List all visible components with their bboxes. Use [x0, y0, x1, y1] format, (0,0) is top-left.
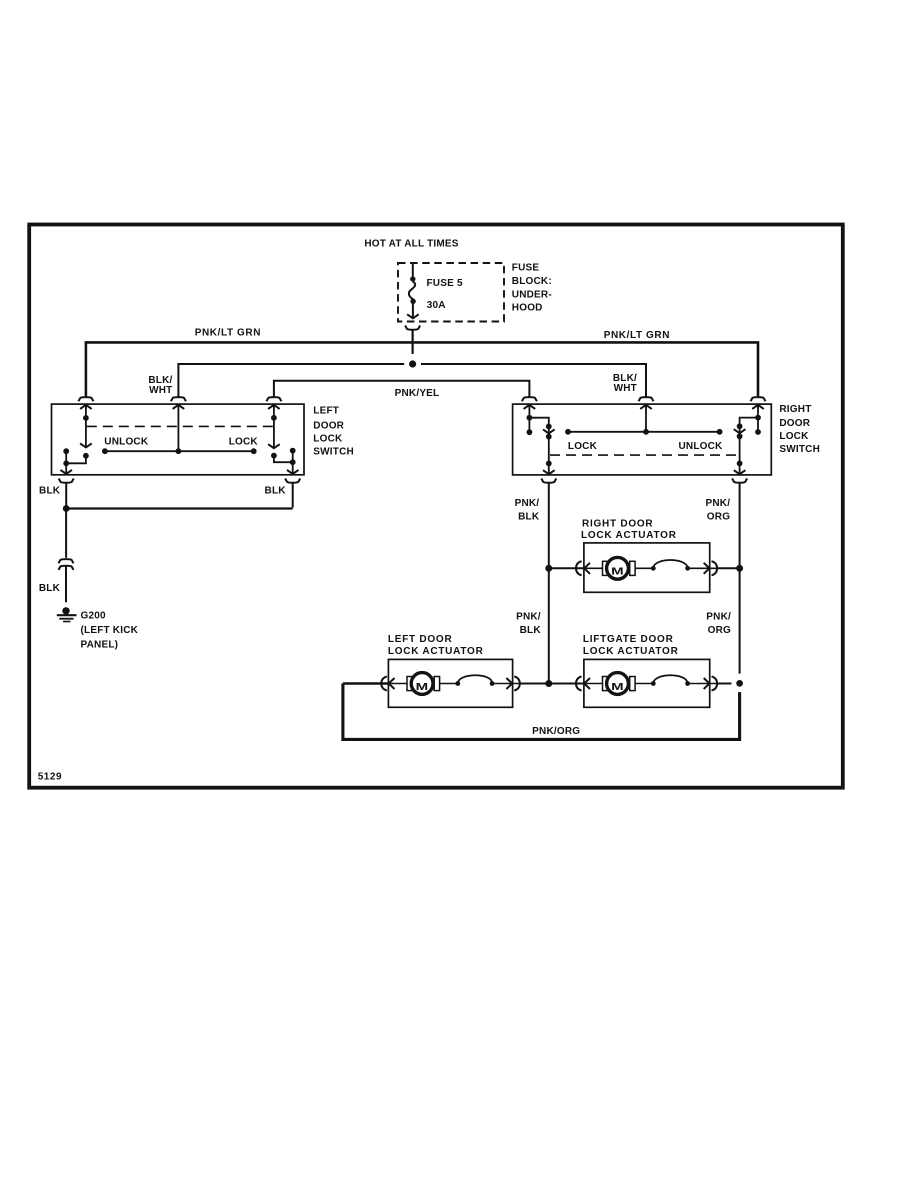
svg-text:DOOR: DOOR: [779, 418, 810, 429]
liftgate actuator motor and linkage: [552, 673, 732, 695]
svg-text:LOCK: LOCK: [229, 437, 259, 448]
wire PNK/BLK vertical: [545, 483, 552, 687]
wire PNK/YEL: [274, 381, 530, 397]
svg-text:SWITCH: SWITCH: [779, 444, 820, 455]
left actuator motor and linkage: [343, 673, 546, 695]
label RIGHT DOOR LOCK SWITCH: [779, 404, 820, 455]
svg-text:PANEL): PANEL): [81, 640, 119, 651]
label BLK/WHT left: [148, 375, 172, 396]
left switch internal dashed link: [87, 425, 273, 427]
label LEFT DOOR LOCK ACTUATOR: [388, 634, 484, 657]
label PNK/ORG upper: [705, 498, 730, 523]
svg-text:PNK/: PNK/: [515, 498, 540, 509]
connector pins on left switch: [78, 397, 281, 409]
svg-text:LOCK ACTUATOR: LOCK ACTUATOR: [583, 646, 679, 657]
label BLK/WHT right: [613, 373, 637, 394]
right switch pin B wire: [643, 405, 649, 435]
connector below left switch (right BLK): [285, 479, 300, 508]
svg-text:PNK/: PNK/: [516, 611, 541, 622]
left switch pin C wiper: [268, 405, 293, 462]
svg-text:LOCK: LOCK: [568, 441, 598, 452]
svg-text:RIGHT: RIGHT: [779, 404, 811, 415]
svg-text:UNDER-: UNDER-: [512, 290, 552, 301]
outer page frame (not a component): [29, 225, 843, 788]
svg-text:PNK/LT GRN: PNK/LT GRN: [195, 327, 261, 338]
label LIFTGATE DOOR LOCK ACTUATOR: [583, 634, 679, 657]
inline connector C on ground wire: [59, 559, 74, 602]
connector below left switch (left BLK): [59, 479, 74, 507]
wire BLK to ground: [65, 509, 67, 558]
svg-text:M: M: [611, 682, 624, 693]
label LEFT DOOR LOCK SWITCH: [313, 405, 354, 457]
svg-text:30A: 30A: [427, 300, 446, 311]
wire BLK/WHT bus with splice: [178, 364, 646, 397]
svg-text:PNK/: PNK/: [705, 498, 730, 509]
connector pins on right switch: [522, 397, 766, 409]
svg-text:M: M: [611, 567, 624, 578]
label PNK/BLK lower: [516, 611, 541, 636]
wire joining BLK exits: [63, 505, 293, 512]
svg-text:BLK: BLK: [39, 583, 61, 594]
svg-text:HOOD: HOOD: [512, 303, 543, 314]
label PNK/ORG lower: [706, 611, 731, 636]
svg-text:LOCK: LOCK: [313, 433, 343, 444]
label RIGHT DOOR LOCK ACTUATOR: [581, 518, 677, 541]
svg-text:FUSE: FUSE: [512, 263, 540, 274]
svg-text:HOT AT ALL TIMES: HOT AT ALL TIMES: [364, 239, 458, 250]
svg-text:BLK: BLK: [520, 625, 542, 636]
left switch common bar: [102, 448, 257, 454]
left switch contact stub A: [60, 448, 72, 474]
fuse block dashed box: [398, 263, 504, 322]
right switch pin C wiper: [734, 405, 761, 474]
wire PNK/ORG return loop: [343, 684, 740, 740]
svg-text:PNK/ORG: PNK/ORG: [532, 726, 580, 737]
liftgate door lock actuator box: [584, 659, 710, 707]
svg-text:WHT: WHT: [149, 385, 172, 396]
svg-text:LIFTGATE DOOR: LIFTGATE DOOR: [583, 634, 674, 645]
svg-text:5129: 5129: [38, 772, 62, 783]
svg-text:RIGHT DOOR: RIGHT DOOR: [582, 518, 653, 529]
svg-text:PNK/YEL: PNK/YEL: [395, 388, 440, 399]
ground G200: [57, 607, 77, 621]
left switch pin B wire: [176, 405, 182, 454]
left switch contact stub C: [287, 448, 299, 474]
svg-text:BLK: BLK: [265, 485, 287, 496]
right actuator motor and linkage: [552, 557, 737, 579]
left switch pin A wiper: [66, 405, 92, 463]
right door lock switch box: [513, 404, 772, 475]
splice node: [409, 360, 416, 367]
left door lock actuator box: [388, 659, 512, 707]
connector below right switch (PNK/BLK): [541, 479, 556, 483]
svg-text:(LEFT KICK: (LEFT KICK: [81, 625, 139, 636]
wire fuse to splice: [412, 330, 414, 354]
svg-text:PNK/LT GRN: PNK/LT GRN: [604, 330, 670, 341]
svg-text:BLK: BLK: [518, 512, 540, 523]
label FUSE BLOCK: UNDERHOOD: [512, 263, 552, 314]
svg-text:LOCK: LOCK: [779, 431, 809, 442]
label PNK/BLK upper: [515, 498, 540, 523]
right door lock actuator box: [584, 543, 710, 592]
svg-text:SWITCH: SWITCH: [313, 447, 354, 458]
svg-text:ORG: ORG: [707, 512, 730, 523]
svg-text:M: M: [416, 682, 429, 693]
svg-text:BLK: BLK: [39, 485, 61, 496]
svg-text:LEFT DOOR: LEFT DOOR: [388, 634, 453, 645]
svg-text:FUSE 5: FUSE 5: [427, 278, 463, 289]
svg-text:UNLOCK: UNLOCK: [679, 441, 724, 452]
svg-text:DOOR: DOOR: [313, 420, 344, 431]
svg-text:WHT: WHT: [614, 383, 637, 394]
right switch common bar: [565, 429, 722, 435]
right switch pin A wiper: [527, 405, 555, 474]
svg-text:UNLOCK: UNLOCK: [104, 437, 149, 448]
connector below fuse block: [405, 326, 420, 330]
svg-text:PNK/: PNK/: [706, 611, 731, 622]
left door lock switch box: [52, 404, 305, 475]
svg-text:LOCK ACTUATOR: LOCK ACTUATOR: [581, 530, 677, 541]
fuse F5 element: [407, 263, 419, 318]
svg-text:BLOCK:: BLOCK:: [512, 276, 552, 287]
svg-text:ORG: ORG: [708, 625, 731, 636]
wire PNK/ORG vertical: [736, 483, 743, 687]
svg-text:LEFT: LEFT: [313, 405, 339, 416]
wire PNK/LT GRN bus: [86, 342, 758, 396]
svg-text:G200: G200: [81, 610, 107, 621]
connector below right switch (PNK/ORG): [732, 479, 747, 483]
label G200 (LEFT KICK PANEL): [81, 610, 139, 650]
svg-text:LOCK ACTUATOR: LOCK ACTUATOR: [388, 646, 484, 657]
right switch internal dashed link: [550, 454, 739, 456]
